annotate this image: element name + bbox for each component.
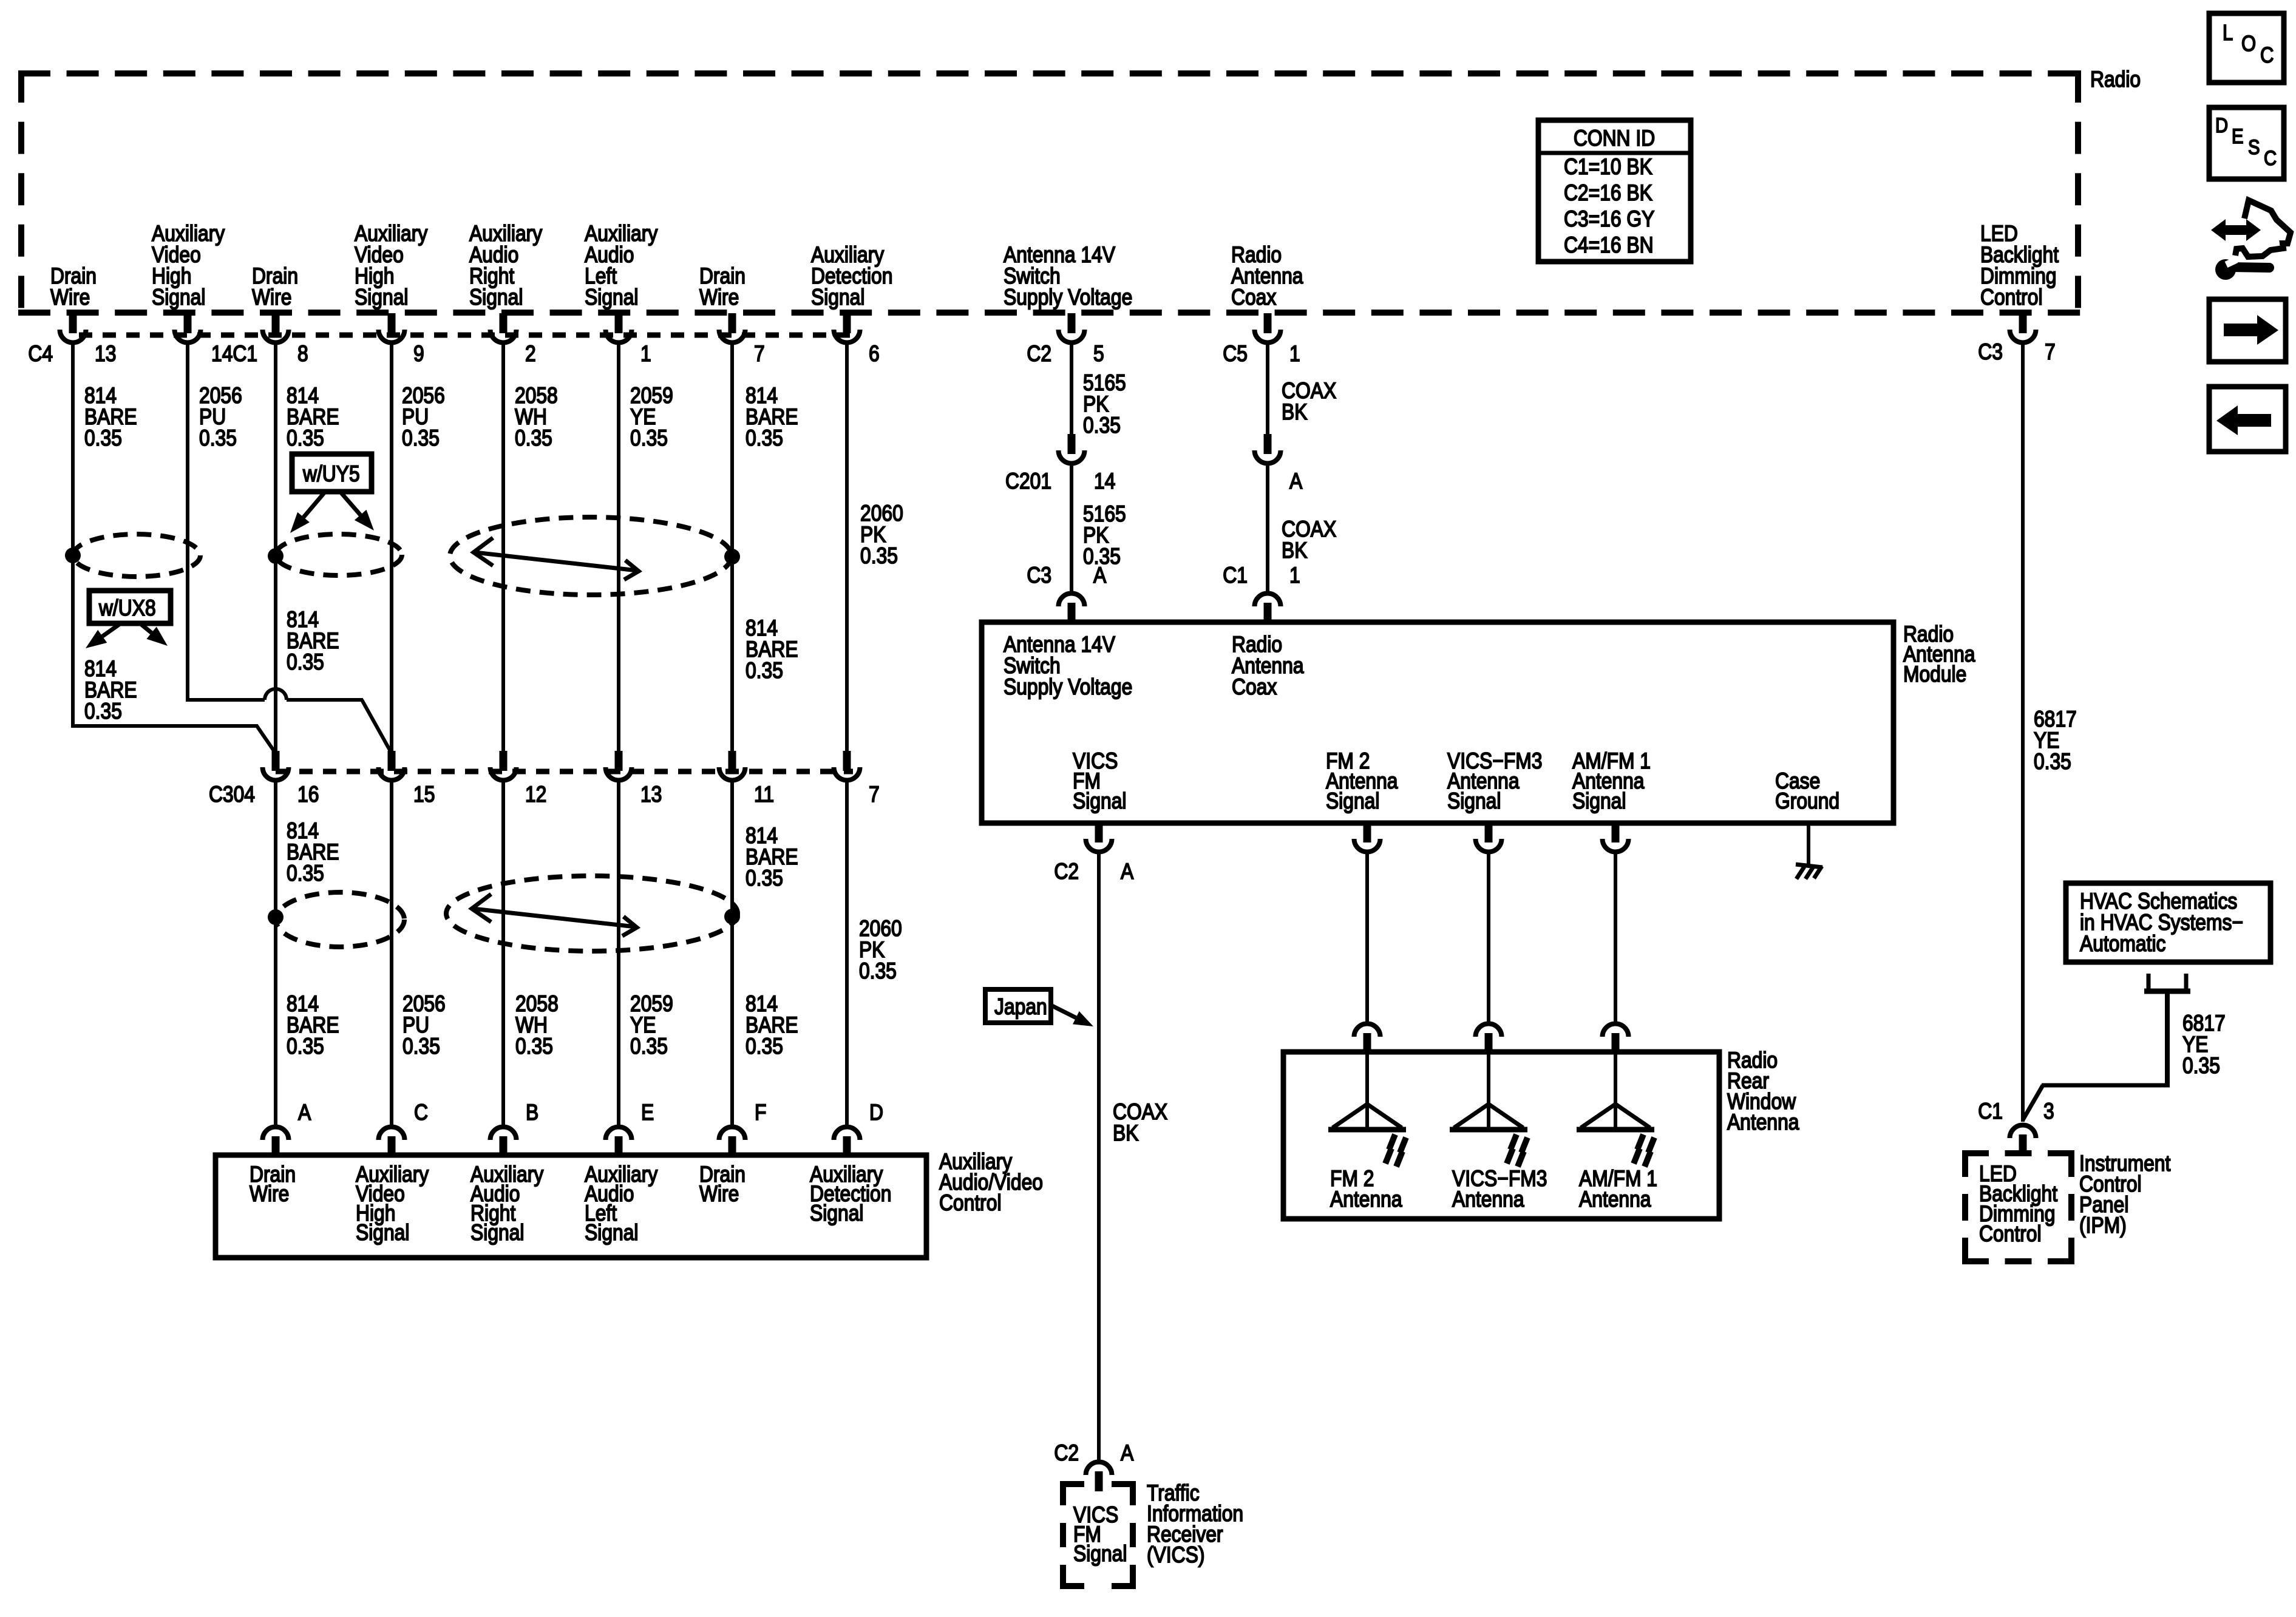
svg-text:14: 14 [1094, 469, 1115, 494]
pin label C3 7 [1978, 340, 2055, 365]
wire FM 2 antenna [1365, 851, 1369, 1022]
svg-text:Antenna: Antenna [1579, 1187, 1651, 1212]
svg-text:O: O [2241, 32, 2256, 56]
wire 2058 WH (C1-2 to C304-12) [501, 342, 505, 753]
svg-text:Signal: Signal [469, 285, 523, 310]
pin C3-A into Radio Antenna Module [1059, 593, 1085, 623]
wire label 814 BARE 0.35 (8) [287, 384, 339, 451]
svg-text:C1=10 BK: C1=10 BK [1564, 155, 1652, 180]
label C201 14 [1005, 469, 1115, 494]
wire label 814 BARE 0.35 (A) [287, 992, 339, 1059]
svg-text:A: A [298, 1100, 311, 1125]
label Drain Wire (pin C4-13) [50, 264, 97, 310]
wire 2056 PU (C4-14), elbow with hop to C304-15 [186, 342, 392, 753]
aux box label Auxiliary Detection Signal (D) [810, 1162, 891, 1226]
svg-text:1: 1 [640, 342, 651, 367]
wire label COAX BK (upper) [1282, 379, 1336, 425]
wire VICS-FM3 antenna [1487, 851, 1490, 1022]
wire label 2058 WH 0.35 (B) [515, 992, 559, 1059]
wire label 2059 YE 0.35 (1) [630, 384, 673, 451]
wire label 814 BARE 0.35 (F) [746, 992, 798, 1059]
in-line coax connector A [1255, 434, 1281, 464]
aux box label Auxiliary Audio Left Signal (E) [585, 1162, 658, 1246]
pin FM 2 antenna signal out [1354, 822, 1381, 852]
svg-text:Control: Control [1979, 1222, 2042, 1247]
svg-text:0.35: 0.35 [746, 866, 783, 891]
svg-text:Wire: Wire [699, 285, 739, 310]
pin C1-2 [491, 313, 517, 343]
svg-text:9: 9 [413, 342, 424, 367]
wire label 2056 PU 0.35 (C) [402, 992, 446, 1059]
module label AM/FM 1 Antenna Signal [1572, 749, 1651, 814]
svg-text:Radio: Radio [2090, 67, 2141, 92]
svg-text:0.35: 0.35 [859, 959, 897, 984]
label Instrument Control Panel (IPM) [2079, 1151, 2171, 1238]
wire 2056 PU (C304-15 to C) [390, 779, 393, 1125]
pin C304-15 [379, 751, 405, 781]
label Radio (top right) [2090, 67, 2141, 92]
label Radio Antenna Module (outside) [1903, 622, 1975, 687]
svg-text:(IPM): (IPM) [2079, 1213, 2127, 1238]
pin C304-16 [263, 751, 289, 781]
pin letters A C B E F D [298, 1100, 883, 1125]
svg-text:w/UY5: w/UY5 [302, 462, 360, 487]
wire label 2056 PU 0.35 (14) [199, 384, 242, 451]
twisted-pair ellipse wires 2/1/7 with arrow [450, 517, 732, 595]
svg-text:L: L [2223, 21, 2233, 46]
pin C2-A into VICS receiver [1086, 1462, 1112, 1492]
connector row dotted line (C4/C1) [79, 333, 850, 338]
Radio Antenna Module box [982, 622, 1894, 823]
coax wire upper segment [1266, 342, 1269, 436]
svg-text:A: A [1121, 1441, 1133, 1466]
antenna symbol VICS-FM3 [1450, 1054, 1527, 1167]
svg-text:Signal: Signal [585, 285, 638, 310]
wire label 814 BARE 0.35 (13 lower) [84, 657, 137, 724]
svg-text:8: 8 [297, 342, 308, 367]
wire 814 BARE (C304-11 to F) [730, 779, 734, 1125]
pin C4-13 [60, 313, 86, 343]
svg-text:C2=16 BK: C2=16 BK [1564, 181, 1652, 206]
pin C304-12 [491, 751, 517, 781]
pin C4-14 [175, 313, 201, 343]
svg-text:C304: C304 [209, 782, 255, 807]
twisted-pair ellipse lower wires B/E/F with arrow [446, 876, 738, 951]
wire label 5165 PK 0.35 (upper) [1083, 371, 1126, 438]
Auxiliary Audio/Video Control box [216, 1155, 926, 1258]
pin B into Auxiliary A/V Control [491, 1127, 517, 1157]
svg-text:11: 11 [754, 782, 774, 807]
pin C into Auxiliary A/V Control [379, 1127, 405, 1157]
svg-text:5: 5 [1093, 342, 1104, 367]
module label VICS-FM3 Antenna Signal [1447, 749, 1542, 814]
pin C1-6 [834, 313, 860, 343]
svg-text:Wire: Wire [50, 285, 90, 310]
aux box label Drain Wire (A) [250, 1162, 296, 1207]
svg-text:(VICS): (VICS) [1147, 1543, 1204, 1568]
wire label COAX BK (lower) [1282, 517, 1336, 563]
pin C1-1 into Radio Antenna Module [1255, 593, 1281, 623]
pin labels row C304 [209, 782, 880, 807]
label Radio Rear Window Antenna (outside) [1727, 1048, 1799, 1135]
Radio component dashed box [18, 70, 2081, 316]
pin C5-1 [1255, 313, 1281, 343]
label C1 1 [1223, 563, 1300, 588]
svg-text:Supply Voltage: Supply Voltage [1004, 675, 1132, 700]
wire 2058 WH (C304-12 to B) [501, 779, 505, 1125]
pin labels row C4/C1 [28, 342, 879, 367]
junction dot lower drain F [724, 909, 740, 924]
antenna symbol FM 2 [1328, 1054, 1406, 1167]
svg-text:Signal: Signal [356, 1221, 409, 1246]
svg-text:Supply Voltage: Supply Voltage [1004, 285, 1132, 310]
rear box label AM/FM 1 Antenna [1579, 1167, 1657, 1212]
in-line connector C201-14 [1059, 434, 1085, 464]
svg-text:Signal: Signal [152, 285, 205, 310]
svg-text:Signal: Signal [585, 1221, 638, 1246]
svg-text:Signal: Signal [1447, 789, 1501, 814]
svg-text:Signal: Signal [811, 285, 864, 310]
svg-text:Signal: Signal [1073, 1542, 1127, 1567]
svg-text:7: 7 [754, 342, 765, 367]
svg-text:Signal: Signal [470, 1221, 524, 1246]
pin AM/FM 1 into rear window antenna [1603, 1023, 1629, 1053]
coax wire lower segment [1266, 463, 1269, 592]
label C1 3 [1978, 1099, 2054, 1124]
pin A into Auxiliary A/V Control [263, 1127, 289, 1157]
svg-text:Japan: Japan [994, 995, 1047, 1020]
twisted-pair ellipse lower wires A/C [276, 892, 404, 947]
svg-text:C201: C201 [1005, 469, 1051, 494]
svg-text:C: C [2260, 44, 2274, 68]
wire label 5165 PK 0.35 (lower) [1083, 502, 1126, 569]
wire 814 BARE (C304-16 to A) [274, 779, 277, 1125]
module label Antenna 14V Switch Supply Voltage [1004, 632, 1132, 700]
svg-text:Signal: Signal [1073, 789, 1126, 814]
svg-text:7: 7 [2045, 340, 2056, 365]
connector C304 dotted line [276, 769, 853, 775]
svg-text:0.35: 0.35 [746, 426, 783, 451]
svg-text:A: A [1289, 469, 1302, 494]
pin FM 2 into rear window antenna [1354, 1023, 1381, 1053]
label Auxiliary Video High Signal (pin C4-14) [152, 222, 225, 310]
pin C1-7 [719, 313, 746, 343]
wire 5165 PK upper segment [1070, 342, 1073, 436]
svg-text:C3=16 GY: C3=16 GY [1564, 207, 1654, 232]
wire label 2058 WH 0.35 (2) [515, 384, 558, 451]
HVAC stub connector [2144, 974, 2190, 991]
svg-text:Coax: Coax [1231, 285, 1276, 310]
antenna symbol AM/FM 1 [1577, 1054, 1654, 1167]
svg-text:E: E [641, 1100, 654, 1125]
wire label 814 BARE 0.35 (F upper) [746, 824, 798, 891]
svg-text:0.35: 0.35 [402, 426, 440, 451]
svg-text:Signal: Signal [1572, 789, 1626, 814]
VICS FM Signal dashed box [1060, 1481, 1136, 1589]
label C2 A (VICS receiver) [1054, 1441, 1133, 1466]
rear box label VICS-FM3 Antenna [1452, 1167, 1547, 1212]
module label FM 2 Antenna Signal [1326, 749, 1398, 814]
wire label 814 BARE 0.35 (13) [84, 384, 137, 451]
svg-text:C2: C2 [1054, 859, 1079, 884]
wire 2056 PU (C1-9 to C304-15) [390, 342, 393, 753]
svg-text:S: S [2248, 135, 2260, 159]
svg-text:0.35: 0.35 [860, 544, 898, 569]
twisted-pair ellipse wires 13/14 [73, 534, 200, 577]
svg-text:2: 2 [525, 342, 536, 367]
svg-text:C2: C2 [1027, 342, 1051, 367]
wire label 2060 PK 0.35 (D) [859, 917, 902, 984]
svg-text:C1: C1 [1223, 563, 1248, 588]
wire 2059 YE (C1-1 to C304-13) [617, 342, 620, 753]
wire label 2056 PU 0.35 (9) [402, 384, 445, 451]
svg-text:0.35: 0.35 [1083, 413, 1121, 438]
wire 2060 PK (C304-7 to D) [845, 779, 849, 1125]
LED box label [1979, 1162, 2057, 1247]
callout w/UY5 with arrows [290, 454, 374, 533]
label Auxiliary Audio/Video Control (outside) [939, 1150, 1043, 1216]
wire label 6817 YE 0.35 (main) [2034, 707, 2077, 775]
aux box label Auxiliary Video High Signal (C) [356, 1162, 429, 1246]
svg-text:15: 15 [413, 782, 435, 807]
svg-text:0.35: 0.35 [630, 1034, 668, 1059]
wire label 6817 YE 0.35 (HVAC) [2182, 1011, 2226, 1079]
wire label COAX BK (VICS) [1113, 1100, 1167, 1146]
svg-text:Ground: Ground [1775, 789, 1839, 814]
wire label 2059 YE 0.35 (E) [630, 992, 673, 1059]
svg-text:3: 3 [2043, 1099, 2054, 1124]
pin label C5 1 [1223, 342, 1300, 367]
svg-text:Control: Control [1980, 285, 2043, 310]
svg-text:Signal: Signal [1326, 789, 1379, 814]
module label Radio Antenna Coax [1232, 632, 1304, 700]
svg-text:C2: C2 [1054, 1441, 1079, 1466]
svg-text:Control: Control [939, 1191, 1002, 1216]
svg-text:C1: C1 [1978, 1099, 2003, 1124]
svg-text:0.35: 0.35 [287, 1034, 324, 1059]
label Traffic Information Receiver (VICS) [1147, 1481, 1243, 1568]
svg-text:6: 6 [869, 342, 880, 367]
aux box label Auxiliary Audio Right Signal (B) [470, 1162, 544, 1246]
VICS box label [1073, 1503, 1127, 1567]
wire 814 BARE drain (C1-8 to C304-16) [274, 342, 277, 753]
wire 6817 YE (C3-7 down) [2021, 341, 2025, 1122]
icon arrow right [2209, 299, 2286, 362]
svg-text:0.35: 0.35 [2034, 750, 2071, 775]
junction dot drain wire C4-13 [65, 547, 81, 563]
svg-text:Signal: Signal [355, 285, 408, 310]
pin D into Auxiliary A/V Control [834, 1127, 860, 1157]
icon arrow left [2209, 387, 2286, 452]
svg-text:B: B [526, 1100, 538, 1125]
svg-text:0.35: 0.35 [2182, 1054, 2220, 1079]
svg-text:0.35: 0.35 [287, 861, 324, 886]
pin C1-8 [263, 313, 289, 343]
label Drain Wire (pin C1-8) [252, 264, 298, 310]
pin C2-5 [1059, 313, 1085, 343]
svg-text:13: 13 [95, 342, 116, 367]
label C2 A (module bottom) [1054, 859, 1133, 884]
svg-text:16: 16 [297, 782, 319, 807]
svg-text:0.35: 0.35 [287, 650, 324, 675]
wire 6817 YE from HVAC [2023, 994, 2170, 1120]
svg-text:C5: C5 [1223, 342, 1248, 367]
pin C304-13 [606, 751, 632, 781]
pin F into Auxiliary A/V Control [719, 1127, 746, 1157]
wire label 814 BARE 0.35 (8 mid) [287, 608, 339, 675]
svg-text:Coax: Coax [1232, 675, 1277, 700]
pin C304-11 [719, 751, 746, 781]
pin label C2 5 [1027, 342, 1104, 367]
svg-text:0.35: 0.35 [84, 699, 122, 724]
svg-text:A: A [1121, 859, 1133, 884]
svg-text:BK: BK [1113, 1121, 1138, 1146]
wire COAX BK to VICS receiver [1097, 851, 1101, 1460]
svg-text:C: C [2264, 146, 2277, 170]
pin C3-7 [2010, 313, 2036, 343]
case ground wire [1807, 823, 1810, 867]
pin VICS-FM3 antenna signal out [1476, 822, 1502, 852]
svg-text:Wire: Wire [252, 285, 291, 310]
CONN ID table [1538, 120, 1691, 262]
svg-text:A: A [1093, 563, 1106, 588]
pin VICS-FM3 into rear window antenna [1476, 1023, 1502, 1053]
wire 2060 PK (C1-6 to C304-7) [845, 342, 849, 753]
svg-text:14C1: 14C1 [211, 342, 257, 367]
wire label 2060 PK 0.35 (6) [860, 501, 903, 569]
svg-text:0.35: 0.35 [515, 426, 552, 451]
svg-text:0.35: 0.35 [287, 426, 324, 451]
svg-text:0.35: 0.35 [746, 1034, 783, 1059]
pin C1-3 into instrument control panel [2010, 1125, 2036, 1155]
pin C1-9 [379, 313, 405, 343]
svg-text:F: F [755, 1100, 766, 1125]
junction dot lower drain A [268, 909, 284, 925]
svg-text:Module: Module [1903, 662, 1966, 687]
callout Japan with arrow [985, 989, 1093, 1026]
twisted-pair ellipse wires 8/9 [276, 534, 402, 575]
svg-text:Automatic: Automatic [2080, 932, 2165, 957]
module label Case Ground [1775, 769, 1839, 814]
svg-text:D: D [2215, 114, 2228, 137]
svg-text:12: 12 [525, 782, 546, 807]
wire 5165 PK lower segment [1070, 463, 1073, 592]
label Auxiliary Video High Signal (pin C1-9) [355, 222, 428, 310]
module label VICS FM Signal [1073, 749, 1126, 814]
HVAC Schematics box [2066, 883, 2271, 962]
svg-text:7: 7 [869, 782, 880, 807]
svg-text:1: 1 [1289, 563, 1300, 588]
svg-text:Wire: Wire [250, 1182, 289, 1207]
svg-text:0.35: 0.35 [402, 1034, 440, 1059]
pin C2-A (VICS FM signal out) [1086, 822, 1112, 852]
pin C304-7 [834, 751, 860, 781]
svg-text:Antenna: Antenna [1452, 1187, 1524, 1212]
svg-text:E: E [2232, 124, 2243, 148]
label Auxiliary Audio Right Signal (pin C1-2) [469, 222, 543, 310]
svg-text:CONN ID: CONN ID [1574, 126, 1655, 151]
wire 814 BARE drain (C4-13), with elbow to C304-16 [71, 342, 276, 753]
svg-text:0.35: 0.35 [746, 659, 783, 683]
svg-text:0.35: 0.35 [84, 426, 122, 451]
svg-text:0.35: 0.35 [199, 426, 237, 451]
pin AM/FM 1 antenna signal out [1603, 822, 1629, 852]
icon car with arrow and wrench [2211, 200, 2291, 280]
wire 814 BARE drain (C1-7 to C304-11) [730, 342, 734, 753]
svg-text:D: D [869, 1100, 883, 1125]
wire label 814 BARE 0.35 (A upper) [287, 819, 339, 886]
svg-text:C3: C3 [1978, 340, 2003, 365]
wire 2059 YE (C304-13 to E) [617, 779, 620, 1125]
svg-text:BK: BK [1282, 538, 1307, 563]
wire label 814 BARE 0.35 (7 mid) [746, 616, 798, 683]
svg-text:Wire: Wire [699, 1182, 739, 1207]
label Auxiliary Audio Left Signal (pin C1-1) [585, 222, 658, 310]
svg-text:1: 1 [1289, 342, 1300, 367]
wire AM/FM 1 antenna [1614, 851, 1617, 1022]
svg-text:C: C [414, 1100, 428, 1125]
svg-text:0.35: 0.35 [630, 426, 668, 451]
rear box label FM 2 Antenna [1330, 1167, 1402, 1212]
label LED Backlight Dimming Control (pin C3-7) [1980, 222, 2059, 310]
svg-text:Antenna: Antenna [1727, 1110, 1799, 1135]
svg-text:C3: C3 [1027, 563, 1051, 588]
pin C1-1 [606, 313, 632, 343]
icon DESC [2209, 107, 2284, 179]
chassis ground symbol [1796, 864, 1822, 879]
aux box label Drain Wire (F) [699, 1162, 746, 1207]
svg-text:0.35: 0.35 [515, 1034, 553, 1059]
svg-text:Antenna: Antenna [1330, 1187, 1402, 1212]
label C3 A [1027, 563, 1106, 588]
svg-text:Signal: Signal [810, 1201, 863, 1226]
junction dot drain wire C1-7 [724, 549, 740, 564]
icon LOC [2209, 13, 2284, 83]
pin E into Auxiliary A/V Control [606, 1127, 632, 1157]
wire label 814 BARE 0.35 (7) [746, 384, 798, 451]
svg-text:C4=16 BN: C4=16 BN [1564, 233, 1654, 258]
label Antenna 14V Switch Supply Voltage (pin C2-5) [1004, 243, 1132, 310]
Radio Rear Window Antenna box [1283, 1052, 1719, 1219]
svg-text:w/UX8: w/UX8 [98, 596, 156, 621]
label A (coax splice) [1289, 469, 1302, 494]
callout w/UX8 with arrows [86, 591, 171, 648]
label Auxiliary Detection Signal (pin C1-6) [811, 243, 892, 310]
svg-text:C4: C4 [28, 342, 53, 367]
LED Backlight Dimming Control dashed box [1962, 1150, 2074, 1264]
label Drain Wire (pin C1-7) [699, 264, 746, 310]
label Radio Antenna Coax (pin C5-1) [1231, 243, 1303, 310]
svg-text:13: 13 [640, 782, 662, 807]
svg-text:BK: BK [1282, 400, 1307, 425]
junction dot drain wire C1-8 [268, 548, 284, 564]
